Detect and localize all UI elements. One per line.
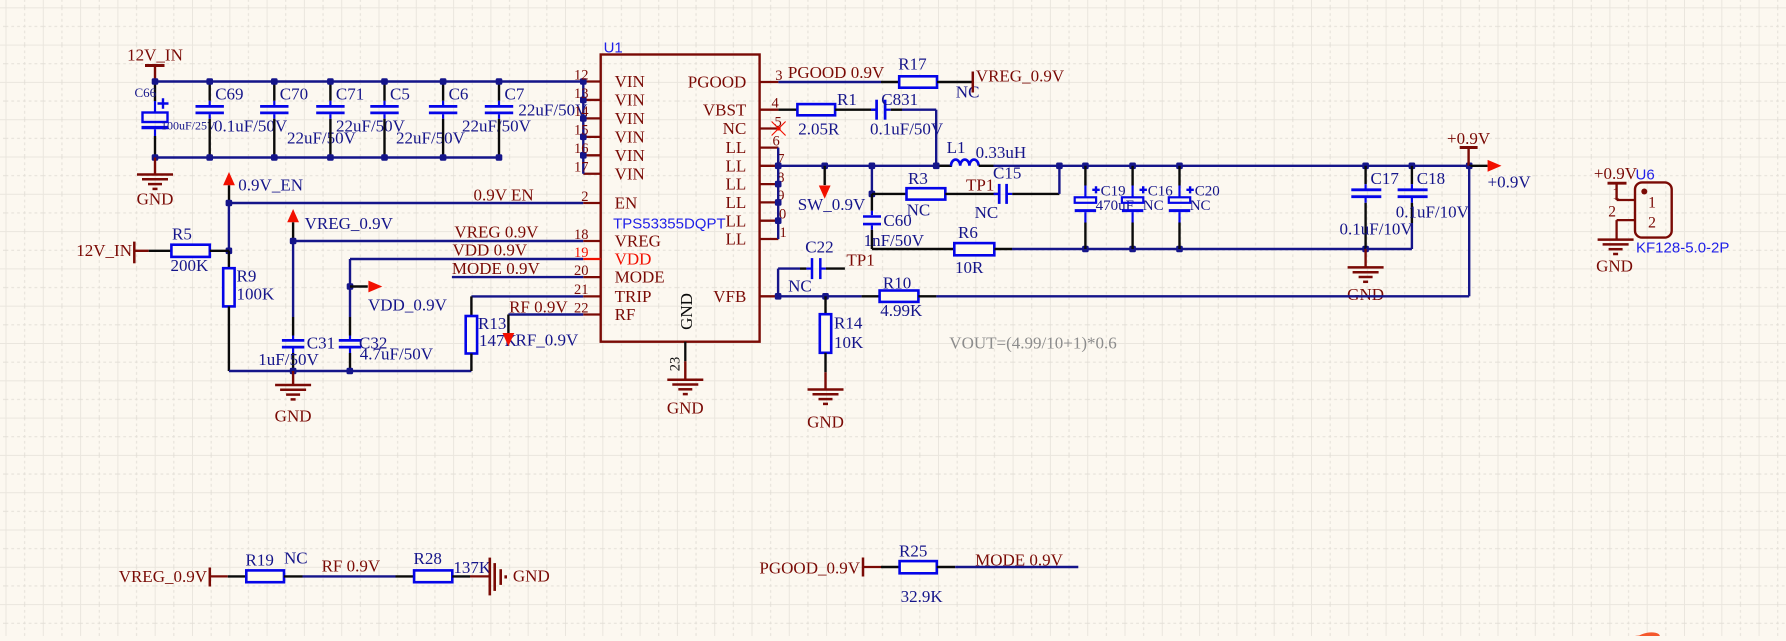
wire VREG net xyxy=(290,238,584,245)
wire SW node xyxy=(778,165,952,167)
svg-text:EN: EN xyxy=(615,194,638,213)
svg-text:R25: R25 xyxy=(899,541,927,560)
svg-text:RF 0.9V: RF 0.9V xyxy=(322,557,381,576)
no-connect X on pin 5 xyxy=(772,122,786,136)
svg-text:2: 2 xyxy=(1648,214,1656,231)
wire VBST net xyxy=(778,108,797,110)
svg-text:100uF/25V: 100uF/25V xyxy=(161,119,216,133)
power port VDD_0.9V (red arrow) xyxy=(350,281,448,315)
junction dots C70 xyxy=(271,78,278,161)
wire EN vertical xyxy=(226,203,233,254)
wire +0.9V output line xyxy=(994,165,1470,167)
svg-text:GND: GND xyxy=(1347,285,1384,304)
svg-text:C5: C5 xyxy=(390,85,410,104)
svg-text:GND: GND xyxy=(677,293,696,330)
svg-text:C71: C71 xyxy=(336,85,364,104)
resistor R1 (2.05R) xyxy=(797,90,876,139)
wire output bottom rail xyxy=(1012,246,1369,253)
svg-text:R10: R10 xyxy=(883,273,911,292)
pin GND 23 of U1 xyxy=(668,293,696,380)
wire RF_0.9V net (bottom) xyxy=(303,575,396,577)
svg-text:GND: GND xyxy=(513,566,550,585)
wire C831 to LL node xyxy=(902,110,936,166)
junction dots SW/output line xyxy=(821,163,1472,170)
wire RF net xyxy=(508,313,583,315)
power port RF_0.9V (red arrow down) xyxy=(503,315,580,350)
pins VIN 12-17 stubs xyxy=(583,82,600,174)
svg-text:10K: 10K xyxy=(834,333,864,352)
svg-text:14: 14 xyxy=(574,104,589,120)
svg-text:TRIP: TRIP xyxy=(615,287,652,306)
orange marker artifact xyxy=(1628,631,1661,641)
svg-text:12V_IN: 12V_IN xyxy=(76,241,132,260)
ground (below C31/C32) xyxy=(275,371,312,426)
svg-text:137K: 137K xyxy=(453,558,492,577)
wire TRIP net xyxy=(471,295,583,297)
ground (below U1 pin 23) xyxy=(667,380,704,418)
svg-text:LL: LL xyxy=(726,193,747,212)
net label VDD_0.9V xyxy=(453,241,528,260)
svg-text:GND: GND xyxy=(137,190,174,209)
capacitor C20 (NC polarized) xyxy=(1169,166,1220,249)
svg-text:10R: 10R xyxy=(955,258,984,277)
svg-text:15: 15 xyxy=(574,123,589,139)
wire R6 rail xyxy=(872,248,954,250)
capacitor C6 (22uF/50V) xyxy=(429,82,532,158)
svg-text:LL: LL xyxy=(726,230,747,249)
resistor R13 (147K) xyxy=(466,296,518,371)
svg-text:0.1uF/50V: 0.1uF/50V xyxy=(214,117,288,136)
inductor L1 (0.33uH) xyxy=(936,138,1026,166)
wire decoupling bottom rail xyxy=(229,368,472,375)
designator U1 xyxy=(604,39,623,56)
resistor R6 (10R) xyxy=(954,223,1012,277)
svg-text:VDD_0.9V: VDD_0.9V xyxy=(368,296,448,315)
svg-text:VREG: VREG xyxy=(615,232,661,251)
capacitor C70 (22uF/50V) xyxy=(260,82,357,158)
power port VREG_0.9V (bottom) xyxy=(119,567,228,587)
svg-text:17: 17 xyxy=(574,160,589,176)
svg-text:12V_IN: 12V_IN xyxy=(127,46,183,65)
svg-text:NC: NC xyxy=(975,203,999,222)
junction dots C7 xyxy=(496,78,503,161)
capacitor C5 (22uF/50V) xyxy=(370,82,465,158)
net label 0.9V_EN xyxy=(474,186,534,205)
svg-text:VIN: VIN xyxy=(615,91,645,110)
ground (below C17) xyxy=(1347,249,1384,304)
svg-text:NC: NC xyxy=(1190,198,1211,214)
svg-text:VREG_0.9V: VREG_0.9V xyxy=(976,66,1065,85)
ground (below R14) xyxy=(807,372,844,431)
svg-text:VOUT=(4.99/10+1)*0.6: VOUT=(4.99/10+1)*0.6 xyxy=(949,334,1116,353)
wire VIN top bus xyxy=(155,80,583,82)
net label RF_0.9V (bottom) xyxy=(322,557,381,576)
net label PGOOD_0.9V (top) xyxy=(788,63,885,82)
wire MODE_0.9V net (bottom) xyxy=(955,566,1078,568)
pin names VIN xyxy=(615,72,645,183)
capacitor C31 (1uF/50V) xyxy=(258,241,335,371)
svg-text:C17: C17 xyxy=(1371,169,1400,188)
svg-text:VREG_0.9V: VREG_0.9V xyxy=(119,567,208,586)
svg-text:LL: LL xyxy=(726,156,747,175)
svg-text:1nF/50V: 1nF/50V xyxy=(864,231,925,250)
svg-text:+0.9V: +0.9V xyxy=(1488,173,1532,192)
junction dots C6 xyxy=(440,78,447,161)
pins right side stubs xyxy=(760,82,779,296)
resistor R3 (NC) xyxy=(872,169,999,220)
svg-text:R19: R19 xyxy=(246,551,274,570)
junction dots C66 xyxy=(152,78,159,161)
junction dots C5 xyxy=(381,78,388,161)
svg-text:PGOOD_0.9V: PGOOD_0.9V xyxy=(759,558,860,577)
wire PGOOD net xyxy=(778,81,881,83)
svg-text:LL: LL xyxy=(726,211,747,230)
svg-text:VDD: VDD xyxy=(615,250,652,269)
svg-text:C6: C6 xyxy=(449,85,469,104)
power port VREG_0.9V (red arrow) xyxy=(287,209,393,241)
svg-text:R14: R14 xyxy=(834,314,863,333)
svg-text:R28: R28 xyxy=(414,549,442,568)
wire EN net xyxy=(226,200,584,207)
value TPS53355DQPT xyxy=(613,216,726,233)
svg-text:R1: R1 xyxy=(837,90,857,109)
svg-text:TP1: TP1 xyxy=(966,175,994,194)
note VOUT formula xyxy=(949,334,1116,353)
net label TP1 (C15) xyxy=(966,175,994,194)
pin names EN/VREG/VDD/MODE/TRIP/RF xyxy=(615,194,665,325)
svg-text:C69: C69 xyxy=(215,85,243,104)
net label TP1 (C22) xyxy=(846,251,874,270)
svg-text:19: 19 xyxy=(574,245,589,261)
svg-text:VIN: VIN xyxy=(615,164,645,183)
wire bottom cap rail xyxy=(155,156,499,158)
power port PGOOD_0.9V (bottom) xyxy=(759,558,881,578)
svg-text:R5: R5 xyxy=(172,225,192,244)
svg-text:R6: R6 xyxy=(958,223,978,242)
svg-text:MODE: MODE xyxy=(615,268,665,287)
pin numbers 2,18-22 xyxy=(574,189,589,316)
wire MODE net xyxy=(452,276,583,278)
svg-text:VDD 0.9V: VDD 0.9V xyxy=(453,241,528,260)
svg-text:GND: GND xyxy=(667,399,704,418)
resistor R19 (NC) xyxy=(228,549,308,583)
value KF128-5.0-2P xyxy=(1636,239,1729,256)
capacitor C32 (4.7uF/50V) xyxy=(339,317,434,371)
svg-text:R17: R17 xyxy=(898,54,927,73)
pins EN/VREG/VDD/MODE/TRIP/RF stubs xyxy=(583,203,600,315)
ground (bottom-left, rotated) xyxy=(490,558,550,596)
resistor R25 (32.9K) xyxy=(881,541,955,606)
capacitor C19 (470uF polarized) xyxy=(1075,166,1134,249)
power port 12V_IN (left) xyxy=(76,241,148,263)
svg-text:21: 21 xyxy=(574,282,589,298)
capacitor C16 (NC polarized) xyxy=(1122,166,1173,249)
svg-text:100K: 100K xyxy=(237,285,276,304)
svg-text:VIN: VIN xyxy=(615,109,645,128)
svg-text:12: 12 xyxy=(574,67,589,83)
resistor R17 (NC) xyxy=(881,54,979,101)
svg-text:0.9V EN: 0.9V EN xyxy=(474,186,534,205)
svg-text:NC: NC xyxy=(788,277,812,296)
power port 0.9V_EN (red arrow) xyxy=(223,172,303,203)
svg-text:MODE 0.9V: MODE 0.9V xyxy=(452,259,541,278)
svg-text:1: 1 xyxy=(1612,186,1620,203)
svg-text:L1: L1 xyxy=(947,138,966,157)
svg-text:+0.9V: +0.9V xyxy=(1447,129,1491,148)
net label MODE_0.9V (bottom) xyxy=(975,550,1064,569)
svg-text:PGOOD: PGOOD xyxy=(688,73,747,92)
svg-text:+0.9V: +0.9V xyxy=(1594,164,1638,183)
capacitor C15 (NC) xyxy=(975,164,1060,222)
capacitor C7 (22uF/50V) xyxy=(485,82,588,158)
power port +0.9V (U6) xyxy=(1594,164,1638,200)
junction dots C69 xyxy=(206,78,213,161)
svg-text:TPS53355DQPT: TPS53355DQPT xyxy=(613,216,726,233)
power port +0.9V (red arrow right) xyxy=(1469,160,1531,192)
connector U6 KF128-5.0-2P body xyxy=(1635,182,1672,237)
pin numbers 3-11 xyxy=(772,68,787,241)
svg-text:C18: C18 xyxy=(1417,169,1445,188)
svg-text:C70: C70 xyxy=(280,85,308,104)
resistor R14 (10K) xyxy=(820,296,864,372)
wire C60 riser xyxy=(869,166,876,197)
svg-text:18: 18 xyxy=(574,227,589,243)
capacitor C18 (0.1uF/10V) xyxy=(1396,166,1470,249)
svg-text:RF 0.9V: RF 0.9V xyxy=(509,297,568,316)
svg-text:VIN: VIN xyxy=(615,127,645,146)
svg-text:13: 13 xyxy=(574,86,589,102)
svg-text:NC: NC xyxy=(284,549,308,568)
svg-text:22uF/50V: 22uF/50V xyxy=(396,129,466,148)
capacitor C60 (1nF/50V) xyxy=(863,194,925,250)
svg-text:0.1uF/10V: 0.1uF/10V xyxy=(1396,203,1470,222)
svg-text:LL: LL xyxy=(726,138,747,157)
svg-text:VFB: VFB xyxy=(713,287,746,306)
wire C18 bottom link xyxy=(1366,248,1412,250)
svg-text:KF128-5.0-2P: KF128-5.0-2P xyxy=(1636,239,1729,256)
svg-text:C22: C22 xyxy=(805,238,833,257)
op-amp U1 TPS53355DQPT body xyxy=(601,55,760,342)
svg-text:2: 2 xyxy=(1608,204,1616,221)
svg-text:20: 20 xyxy=(574,263,589,279)
junction dots C71 xyxy=(327,78,334,161)
svg-text:U6: U6 xyxy=(1636,167,1655,184)
wire VIN pin collector xyxy=(580,78,587,174)
net label RF_0.9V xyxy=(509,297,568,316)
svg-text:0.33uH: 0.33uH xyxy=(976,143,1027,162)
power port VREG_0.9V (top right bar) xyxy=(973,66,1065,92)
capacitor C22 (NC) xyxy=(778,238,845,297)
svg-text:6: 6 xyxy=(773,133,780,149)
ground (below C66) xyxy=(137,158,174,209)
svg-text:VREG_0.9V: VREG_0.9V xyxy=(305,214,394,233)
svg-text:C15: C15 xyxy=(993,164,1021,183)
svg-text:TP1: TP1 xyxy=(846,251,874,270)
wire VDD net xyxy=(347,259,584,317)
power port +0.9V (bar) xyxy=(1447,129,1491,166)
svg-text:U1: U1 xyxy=(604,39,623,56)
capacitor C17 (0.1uF/10V) xyxy=(1340,166,1414,249)
svg-text:4.7uF/50V: 4.7uF/50V xyxy=(360,344,434,363)
svg-text:VBST: VBST xyxy=(703,100,747,119)
svg-text:1: 1 xyxy=(1648,195,1656,212)
net label MODE_0.9V xyxy=(452,259,541,278)
capacitor C66 (100uF/25V polarized) xyxy=(135,82,217,158)
svg-text:PGOOD 0.9V: PGOOD 0.9V xyxy=(788,63,885,82)
pin 1 of U6 xyxy=(1612,186,1635,203)
svg-text:R9: R9 xyxy=(237,267,257,286)
pin numbers 12-17 xyxy=(574,67,589,175)
svg-text:0.1uF/50V: 0.1uF/50V xyxy=(870,120,944,139)
svg-text:32.9K: 32.9K xyxy=(901,587,944,606)
svg-text:4.99K: 4.99K xyxy=(880,301,923,320)
svg-text:RF: RF xyxy=(615,305,636,324)
power port SW_0.9V (red arrow down) xyxy=(798,166,866,214)
resistor R10 (4.99K) xyxy=(862,273,937,320)
svg-text:2.05R: 2.05R xyxy=(798,120,840,139)
svg-text:C831: C831 xyxy=(881,90,918,109)
designator U6 xyxy=(1636,167,1655,184)
svg-text:4: 4 xyxy=(772,96,780,112)
capacitor C831 (0.1uF/50V) xyxy=(870,90,944,139)
svg-text:200K: 200K xyxy=(171,256,210,275)
svg-text:RF_0.9V: RF_0.9V xyxy=(516,331,580,350)
power port 12V_IN (top) xyxy=(127,46,183,82)
svg-text:GND: GND xyxy=(275,407,312,426)
svg-text:LL: LL xyxy=(726,175,747,194)
svg-text:SW_0.9V: SW_0.9V xyxy=(798,195,866,214)
wire VFB net xyxy=(775,293,862,300)
svg-text:22: 22 xyxy=(574,300,589,316)
capacitor C71 (22uF/50V) xyxy=(316,82,405,158)
svg-text:VIN: VIN xyxy=(615,146,645,165)
resistor R28 (137K) xyxy=(396,549,492,582)
svg-text:0.1uF/10V: 0.1uF/10V xyxy=(1340,220,1414,239)
wire C15 riser xyxy=(1058,166,1060,194)
svg-text:R3: R3 xyxy=(908,169,928,188)
pin 2 of U6 xyxy=(1608,204,1635,240)
svg-text:C66: C66 xyxy=(135,85,157,100)
pin names PGOOD/VBST/NC/LL/VFB xyxy=(688,73,747,306)
wire LL pin collector xyxy=(775,148,782,239)
svg-text:MODE 0.9V: MODE 0.9V xyxy=(975,550,1064,569)
net label VREG_0.9V xyxy=(454,222,539,241)
svg-text:23: 23 xyxy=(668,357,684,372)
svg-text:1uF/50V: 1uF/50V xyxy=(258,350,319,369)
svg-text:2: 2 xyxy=(581,189,588,205)
wire output right vertical xyxy=(1468,166,1470,296)
svg-text:GND: GND xyxy=(807,412,844,431)
ground (U6) xyxy=(1596,240,1634,276)
svg-text:16: 16 xyxy=(574,141,589,157)
svg-text:0.9V_EN: 0.9V_EN xyxy=(238,176,303,195)
svg-text:1: 1 xyxy=(780,225,787,241)
svg-text:NC: NC xyxy=(907,201,931,220)
wire VFB to output xyxy=(936,295,1469,297)
svg-text:GND: GND xyxy=(1596,257,1633,276)
svg-text:NC: NC xyxy=(723,119,747,138)
resistor R5 (200K) xyxy=(149,225,229,275)
resistor R9 (100K) xyxy=(223,251,275,371)
svg-text:VIN: VIN xyxy=(615,72,645,91)
capacitor C69 (0.1uF/50V) xyxy=(196,82,288,158)
svg-text:NC: NC xyxy=(1143,198,1164,214)
svg-text:VREG 0.9V: VREG 0.9V xyxy=(454,222,539,241)
